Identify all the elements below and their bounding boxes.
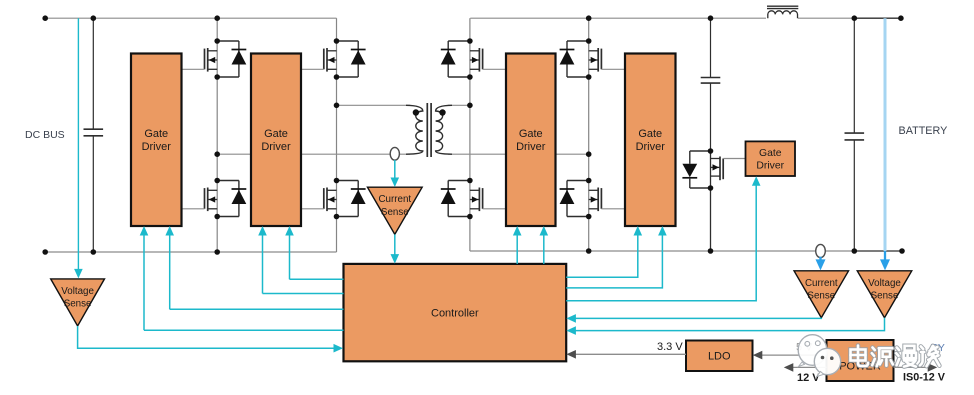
- current probe loop on battery return: [816, 244, 826, 257]
- node DC bus negative terminal: [42, 249, 48, 255]
- svg-text:Driver: Driver: [516, 141, 546, 153]
- wire battery voltage sense to controller: [574, 318, 885, 331]
- wire arrow probe to battery current sense: [819, 257, 821, 263]
- svg-text:Gate: Gate: [519, 128, 543, 140]
- svg-text:Current: Current: [378, 194, 411, 205]
- wire current sense to controller top: [394, 234, 396, 256]
- svg-text:Sense: Sense: [381, 207, 409, 218]
- wire POWER 12V input: [791, 366, 827, 368]
- transformer T1 core: [426, 103, 428, 157]
- wire controller to gate driver U2 left: [263, 293, 344, 295]
- wire controller to gate driver U4 right: [566, 234, 662, 288]
- svg-text:Voltage: Voltage: [868, 278, 901, 289]
- wire controller to gate driver U3 right: [543, 234, 545, 264]
- node cap C3 top junction: [852, 15, 858, 21]
- transistor Q2 low-side leg A with body diode: [216, 181, 218, 217]
- svg-text:Voltage: Voltage: [61, 286, 94, 297]
- wire POWER ISO-12V output: [894, 366, 931, 368]
- svg-text:Current: Current: [805, 278, 838, 289]
- watermark character tan: [920, 346, 939, 366]
- transformer T1 primary winding: [406, 105, 423, 154]
- node cap C1 top junction: [91, 15, 97, 21]
- inductor L1 battery filter: [768, 11, 798, 18]
- gate driver U4 leg D: [625, 54, 676, 227]
- transistor Q6 low-side leg C with body diode: [469, 181, 471, 217]
- transistor Q3 high-side leg B with body diode: [336, 41, 338, 77]
- wire leg C vertical: [469, 18, 471, 41]
- capacitor battery side: [853, 18, 855, 133]
- svg-text:Sense: Sense: [871, 291, 899, 302]
- transformer T1 secondary phase dot: [439, 109, 445, 115]
- regulator LDO: [686, 341, 753, 372]
- transformer T1 secondary winding: [436, 105, 452, 154]
- watermark wechat logo small bubble: [814, 348, 840, 374]
- voltage sense block primary: [51, 279, 105, 326]
- svg-text:Gate: Gate: [144, 128, 168, 140]
- wire bottom rail secondary side: [470, 250, 854, 252]
- wire battery current sense to controller: [574, 317, 822, 320]
- current sense block battery: [794, 271, 849, 318]
- wire controller to gate driver U4 left: [566, 234, 638, 277]
- wire controller to gate driver U2 right: [290, 278, 344, 280]
- watermark character man: [896, 346, 916, 367]
- wire bottom rail battery stub: [854, 250, 902, 252]
- wire top rail secondary side: [470, 17, 766, 19]
- transistor Q4 low-side leg B with body diode: [336, 181, 338, 217]
- node leg D top junction: [586, 15, 592, 21]
- controller U6: [344, 264, 567, 361]
- node cap C2 top junction: [708, 15, 714, 21]
- wire controller to gate driver U1 left: [144, 329, 344, 331]
- svg-text:Driver: Driver: [756, 161, 784, 172]
- wire transformer secondary bottom lead: [448, 153, 589, 155]
- svg-text:3.3 V: 3.3 V: [657, 341, 683, 353]
- capacitor clamp after bridge: [710, 18, 712, 77]
- node leg A top junction: [214, 15, 220, 21]
- node cap C3 bottom junction: [852, 248, 858, 254]
- svg-text:Driver: Driver: [636, 141, 666, 153]
- node secondary phase C mid junction: [467, 103, 473, 109]
- watermark character yuan: [872, 348, 893, 367]
- transistor Q8 low-side leg D with body diode: [588, 181, 590, 217]
- node DC bus positive terminal: [42, 15, 48, 21]
- svg-text:Gate: Gate: [759, 148, 782, 159]
- wire controller to gate driver U1 right: [170, 308, 344, 310]
- transistor Q5 high-side leg C with body diode: [469, 41, 471, 77]
- gate driver U2 leg B: [251, 54, 301, 227]
- diode D9 series blocking diode: [690, 150, 711, 152]
- node primary phase A mid junction: [214, 151, 220, 157]
- svg-text:IS0-12 V: IS0-12 V: [903, 372, 946, 384]
- wire arrow into primary voltage sense: [74, 269, 83, 279]
- wire leg D vertical: [588, 18, 590, 41]
- transformer T1 primary phase dot: [413, 109, 419, 115]
- svg-text:12 V: 12 V: [797, 372, 820, 384]
- wire battery voltage sense tap: [884, 18, 887, 251]
- node primary phase B mid junction: [334, 103, 340, 109]
- gate driver U3 leg C: [506, 54, 556, 227]
- node Q9 source: [708, 185, 714, 191]
- gate driver U1 leg A: [131, 54, 182, 227]
- wire top rail battery stub: [854, 17, 901, 19]
- wire transformer primary top lead: [337, 104, 411, 106]
- svg-text:DC BUS: DC BUS: [25, 129, 65, 141]
- transistor Q9 battery disconnect with series diode: [710, 151, 712, 188]
- wire primary voltage sense to controller: [78, 326, 336, 348]
- wire primary current probe to current sense: [394, 160, 396, 180]
- svg-text:Sense: Sense: [807, 291, 835, 302]
- svg-text:Gate: Gate: [638, 128, 662, 140]
- svg-text:BATTERY: BATTERY: [899, 125, 948, 137]
- voltage sense block battery: [857, 271, 912, 318]
- wire arrow rail to battery voltage sense: [884, 251, 886, 263]
- node leg A bottom junction: [214, 249, 220, 255]
- svg-text:LDO: LDO: [708, 351, 731, 363]
- gate driver U5 battery disconnect: [746, 141, 796, 176]
- wire bottom rail primary side: [45, 251, 336, 253]
- capacitor DC bus: [92, 18, 94, 129]
- wire POWER 5V to LDO: [760, 354, 827, 356]
- svg-text:Driver: Driver: [261, 141, 291, 153]
- node battery negative terminal: [899, 248, 905, 254]
- svg-text:Controller: Controller: [431, 307, 479, 319]
- wire leg A vertical: [216, 18, 218, 41]
- wire transformer secondary top lead: [448, 104, 470, 106]
- wire top rail primary side: [45, 17, 336, 19]
- wire controller to gate driver U3 left: [516, 234, 518, 264]
- transistor Q1 high-side leg A with body diode: [216, 41, 218, 77]
- node secondary phase D mid junction: [586, 151, 592, 157]
- watermark character dian: [851, 346, 869, 367]
- wire gate lead Q9 to gate driver: [723, 158, 745, 160]
- node battery positive terminal: [898, 15, 904, 21]
- current sense block transformer: [367, 187, 422, 234]
- node cap C1 bottom junction: [91, 249, 97, 255]
- transistor Q7 high-side leg D with body diode: [588, 41, 590, 77]
- current probe loop on primary return: [390, 147, 399, 160]
- wire LDO 3.3V to controller: [574, 353, 687, 355]
- node Q9 bottom junction: [708, 248, 714, 254]
- power supply module: [827, 340, 894, 381]
- svg-text:Sense: Sense: [64, 299, 92, 310]
- wire transformer primary bottom lead: [217, 153, 410, 155]
- node Q9 drain: [708, 148, 714, 154]
- node leg D bottom junction: [586, 248, 592, 254]
- watermark wechat logo big bubble: [798, 335, 827, 366]
- svg-text:Gate: Gate: [264, 128, 288, 140]
- wire DC bus voltage sense tap: [77, 18, 79, 271]
- svg-text:Driver: Driver: [142, 141, 172, 153]
- wire controller to gate driver U5: [566, 184, 756, 301]
- wire leg B vertical: [336, 18, 338, 41]
